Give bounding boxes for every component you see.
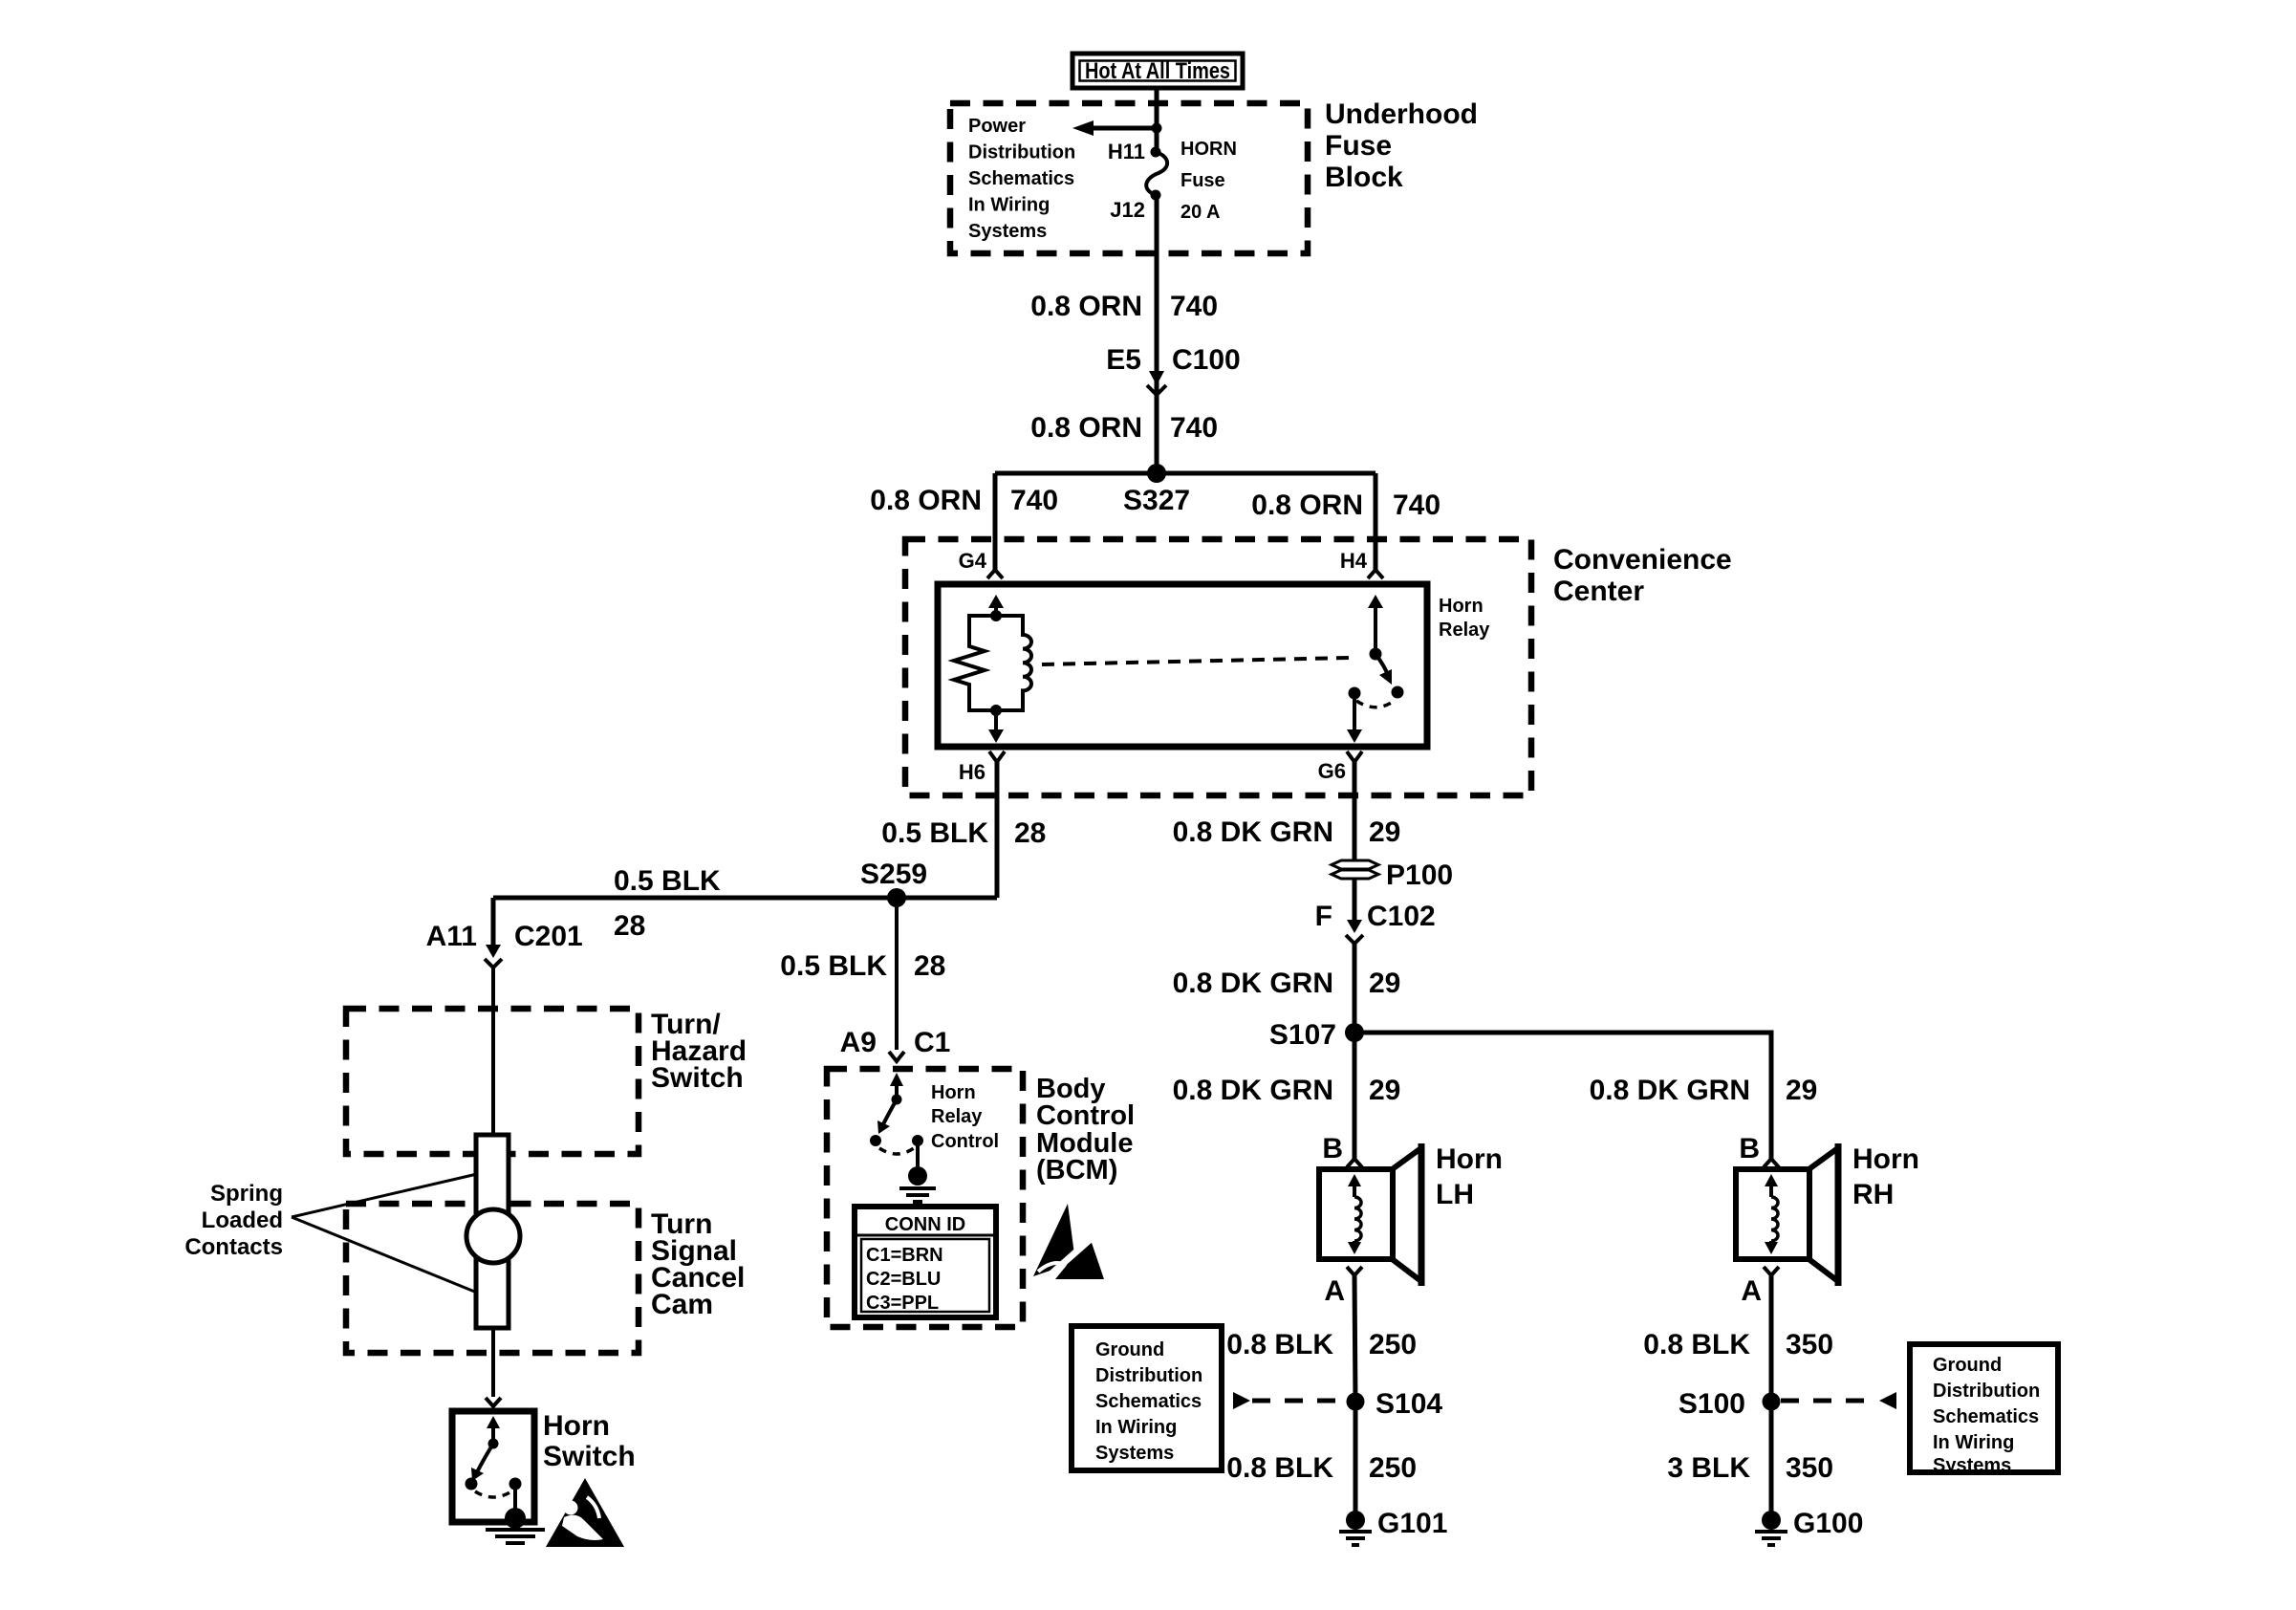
connector C1 pin A9 [840, 1027, 951, 1061]
svg-text:Ground: Ground [1933, 1355, 2002, 1376]
svg-text:Relay: Relay [931, 1106, 983, 1127]
svg-text:A9: A9 [840, 1027, 877, 1058]
wire label 0.8 DK GRN 29 (LH) [1173, 1075, 1401, 1106]
arrow to power distribution [1072, 120, 1162, 136]
ground G101 [1339, 1508, 1447, 1545]
svg-text:(BCM): (BCM) [1036, 1155, 1117, 1186]
Underhood Fuse Block label [1325, 98, 1478, 193]
wire S107 down to horn LH [1353, 1033, 1357, 1159]
node S100 [1763, 1393, 1781, 1411]
svg-text:350: 350 [1786, 1452, 1833, 1484]
svg-text:Power: Power [968, 116, 1026, 137]
svg-text:C201: C201 [514, 921, 583, 952]
airbag warning triangle [546, 1478, 624, 1547]
pin A (LH) [1324, 1267, 1362, 1307]
horn switch ground [486, 1484, 545, 1543]
pin B (LH) [1322, 1133, 1362, 1167]
wire C102 to S107 [1353, 944, 1357, 1033]
svg-text:In Wiring: In Wiring [1933, 1432, 2014, 1453]
svg-text:0.5 BLK: 0.5 BLK [614, 865, 721, 897]
wire S100 to G100 [1769, 1402, 1774, 1513]
svg-text:29: 29 [1786, 1075, 1817, 1106]
wire P100 to C102 [1353, 879, 1357, 920]
BCM internal ground [899, 1141, 936, 1202]
ESD warning symbol [1033, 1204, 1104, 1282]
Turn/Hazard Switch dashed box [346, 1009, 639, 1154]
svg-text:0.8 DK GRN: 0.8 DK GRN [1173, 1075, 1333, 1106]
svg-text:Distribution: Distribution [968, 142, 1075, 163]
Turn Signal Cancel Cam label [651, 1208, 745, 1320]
svg-text:C1: C1 [914, 1027, 950, 1058]
Convenience Center label [1553, 544, 1732, 607]
wire label 0.5 BLK 28 [780, 950, 945, 982]
svg-text:0.8 DK GRN: 0.8 DK GRN [1173, 968, 1333, 999]
svg-text:3 BLK: 3 BLK [1667, 1452, 1750, 1484]
svg-text:Systems: Systems [1095, 1443, 1174, 1464]
svg-text:0.8 BLK: 0.8 BLK [1226, 1452, 1333, 1484]
svg-text:Distribution: Distribution [1933, 1381, 2040, 1402]
relay coil bottom node and arrow to H6 [988, 705, 1004, 743]
wire label 0.8 BLK 250 [1226, 1452, 1417, 1484]
svg-text:Switch: Switch [543, 1441, 636, 1472]
svg-text:Control: Control [1036, 1100, 1135, 1131]
splice S327 bus wire [995, 471, 1375, 476]
horn switch input terminal [486, 1398, 501, 1406]
svg-text:Fuse: Fuse [1325, 130, 1392, 162]
dashed reference link to ground distribution [1233, 1392, 1346, 1409]
svg-text:29: 29 [1369, 1075, 1400, 1106]
svg-text:Spring: Spring [210, 1181, 283, 1207]
relay coil resistor (left leg) [954, 616, 996, 710]
pin G4 [959, 549, 1003, 578]
wire from C201 to cancel cam [491, 968, 495, 1135]
svg-text:Horn: Horn [931, 1082, 976, 1103]
Ground Distribution box (right) [1910, 1344, 2058, 1476]
wire label 0.8 BLK 250 [1226, 1329, 1417, 1360]
svg-text:S327: S327 [1123, 485, 1190, 516]
svg-text:740: 740 [1170, 291, 1218, 322]
wire horn RH to S100 [1769, 1275, 1774, 1402]
svg-text:C1=BRN: C1=BRN [866, 1245, 943, 1266]
svg-text:B: B [1739, 1133, 1760, 1164]
horn switch arm [471, 1416, 500, 1481]
svg-text:Underhood: Underhood [1325, 98, 1478, 130]
svg-text:C102: C102 [1367, 901, 1436, 932]
Body Control Module label [1036, 1074, 1135, 1186]
svg-text:H11: H11 [1108, 140, 1145, 163]
svg-text:S259: S259 [860, 859, 927, 890]
svg-text:28: 28 [914, 950, 945, 982]
svg-text:0.5 BLK: 0.5 BLK [881, 817, 988, 849]
dashed reference link to ground distribution (right) [1781, 1392, 1896, 1409]
svg-text:Ground: Ground [1095, 1339, 1164, 1360]
wire S104 to G101 [1354, 1402, 1358, 1513]
pin A (RH) [1741, 1267, 1779, 1307]
svg-text:Control: Control [931, 1131, 999, 1152]
wire label 0.8 ORN 740 [1030, 412, 1218, 444]
node S259 [887, 888, 906, 907]
wire down from corner to connector C201 [491, 898, 496, 945]
svg-text:C2=BLU: C2=BLU [866, 1269, 941, 1290]
relay switch output arrow to G6 [1347, 693, 1362, 743]
wire S327 to G4 [993, 473, 998, 570]
horn switch contacts [466, 1478, 522, 1498]
relay switch arm pivot (from H4) [1368, 595, 1392, 685]
wire label 0.8 BLK 350 [1643, 1329, 1833, 1360]
pin H4 [1340, 549, 1383, 578]
horizontal wire to turn/hazard switch [493, 896, 997, 901]
svg-text:29: 29 [1369, 816, 1400, 848]
Horn Relay Control label [931, 1082, 999, 1152]
connector C102 pin F [1315, 901, 1436, 944]
svg-text:E5: E5 [1106, 344, 1141, 376]
svg-text:A11: A11 [426, 921, 477, 952]
svg-text:Hot At All Times: Hot At All Times [1085, 58, 1230, 84]
svg-text:Schematics: Schematics [968, 168, 1074, 189]
svg-text:C100: C100 [1172, 344, 1241, 376]
svg-text:350: 350 [1786, 1329, 1833, 1360]
wire S107 branch to horn RH [1354, 1033, 1771, 1159]
svg-text:Contacts: Contacts [184, 1234, 283, 1260]
grommet P100 [1332, 859, 1453, 891]
svg-text:Convenience: Convenience [1553, 544, 1732, 576]
wire S259 down to BCM [895, 898, 899, 1050]
svg-text:G100: G100 [1793, 1508, 1863, 1539]
svg-text:S107: S107 [1269, 1019, 1336, 1051]
svg-text:Horn: Horn [1436, 1143, 1503, 1175]
svg-text:0.8 ORN: 0.8 ORN [870, 485, 982, 516]
wire label 0.8 DK GRN 29 [1173, 968, 1401, 999]
fuse HORN Fuse 20 A [1146, 152, 1167, 195]
horn relay control contacts [870, 1135, 923, 1154]
Hot At All Times box [1072, 54, 1243, 88]
svg-text:S100: S100 [1679, 1388, 1745, 1420]
Horn LH label [1436, 1143, 1503, 1210]
svg-text:Cam: Cam [651, 1289, 713, 1320]
wire label 3 BLK 350 [1667, 1452, 1833, 1484]
svg-text:28: 28 [614, 910, 645, 942]
svg-text:A: A [1324, 1275, 1345, 1307]
svg-text:C3=PPL: C3=PPL [866, 1293, 939, 1314]
svg-text:Center: Center [1553, 576, 1644, 607]
svg-text:Horn: Horn [543, 1410, 610, 1442]
relay actuation dashed link [1042, 658, 1350, 664]
wire horn LH to S104 [1354, 1275, 1355, 1402]
Convenience Center dashed box [905, 539, 1531, 795]
pin B (RH) [1739, 1133, 1779, 1167]
CONN ID table [855, 1207, 996, 1317]
svg-text:28: 28 [1014, 817, 1046, 849]
svg-text:J12: J12 [1110, 198, 1145, 222]
svg-text:0.8 ORN: 0.8 ORN [1030, 412, 1142, 444]
wire label 0.8 ORN 740 (right) [1251, 490, 1440, 521]
svg-text:0.8 BLK: 0.8 BLK [1643, 1329, 1750, 1360]
horn relay control driver arrow [877, 1073, 903, 1134]
svg-text:20 A: 20 A [1180, 202, 1221, 223]
svg-text:F: F [1315, 901, 1332, 932]
Horn Relay label [1439, 596, 1490, 641]
Spring Loaded Contacts label [184, 1181, 283, 1260]
wire from cancel cam to horn switch [491, 1328, 495, 1397]
svg-text:0.8 ORN: 0.8 ORN [1251, 490, 1363, 521]
wire from Hot At All Times into fuse block [1155, 88, 1159, 152]
Horn Switch label [543, 1410, 636, 1472]
svg-text:G4: G4 [959, 549, 987, 573]
svg-text:Horn: Horn [1852, 1143, 1919, 1175]
Power Distribution Schematics In Wiring Systems note [968, 116, 1075, 242]
svg-text:Block: Block [1325, 162, 1403, 193]
wire label 0.8 ORN 740 (left) [870, 485, 1058, 516]
Turn Signal Cancel Cam dashed box [346, 1204, 639, 1353]
svg-text:740: 740 [1393, 490, 1440, 521]
svg-text:Fuse: Fuse [1180, 170, 1225, 191]
svg-text:CONN ID: CONN ID [885, 1214, 965, 1235]
Horn RH label [1852, 1143, 1919, 1210]
svg-text:0.8 DK GRN: 0.8 DK GRN [1590, 1075, 1750, 1106]
wire label 0.5 BLK / 28 (horizontal run) [614, 865, 721, 942]
svg-text:P100: P100 [1386, 859, 1453, 891]
svg-text:B: B [1322, 1133, 1343, 1164]
node S107 [1345, 1023, 1364, 1042]
wire S327 to H4 [1374, 473, 1378, 570]
svg-text:0.8 ORN: 0.8 ORN [1030, 291, 1142, 322]
Horn Switch box [452, 1411, 534, 1522]
svg-text:H4: H4 [1340, 549, 1368, 573]
svg-text:740: 740 [1010, 485, 1058, 516]
svg-text:Distribution: Distribution [1095, 1365, 1202, 1386]
relay coil inductor (right leg) [996, 616, 1031, 710]
Turn/Hazard Switch label [651, 1009, 747, 1094]
Horn LH [1319, 1143, 1422, 1286]
connector C100 pin E5 [1106, 344, 1240, 395]
Horn RH [1736, 1143, 1839, 1286]
svg-text:H6: H6 [959, 760, 986, 784]
svg-text:0.5 BLK: 0.5 BLK [780, 950, 887, 982]
pin G6 [1318, 751, 1362, 860]
node S327 [1147, 464, 1166, 483]
svg-text:LH: LH [1436, 1179, 1474, 1210]
svg-text:In Wiring: In Wiring [968, 195, 1050, 216]
svg-text:Schematics: Schematics [1095, 1391, 1202, 1412]
spring loaded contacts pointer lines [292, 1174, 477, 1217]
svg-text:G6: G6 [1318, 759, 1346, 783]
svg-text:250: 250 [1369, 1452, 1417, 1484]
svg-text:740: 740 [1170, 412, 1218, 444]
svg-text:HORN: HORN [1180, 139, 1237, 160]
svg-text:Relay: Relay [1439, 620, 1490, 641]
cancel cam circle [466, 1209, 520, 1263]
svg-text:In Wiring: In Wiring [1095, 1417, 1177, 1438]
Horn Relay box [938, 584, 1427, 747]
svg-text:S104: S104 [1375, 1388, 1442, 1420]
wire label 0.8 DK GRN 29 (RH) [1590, 1075, 1818, 1106]
svg-text:Switch: Switch [651, 1062, 744, 1094]
svg-text:Horn: Horn [1439, 596, 1484, 617]
svg-text:Systems: Systems [968, 221, 1047, 242]
svg-text:A: A [1741, 1275, 1762, 1307]
svg-text:RH: RH [1852, 1179, 1894, 1210]
svg-text:29: 29 [1369, 968, 1400, 999]
relay coil pin arrow (from G4) [988, 595, 1004, 621]
connector C201 pin A11 [426, 921, 583, 968]
svg-text:Systems: Systems [1933, 1455, 2011, 1476]
svg-text:G101: G101 [1377, 1508, 1447, 1539]
svg-text:Schematics: Schematics [1933, 1406, 2039, 1427]
Underhood Fuse Block dashed box [950, 103, 1308, 253]
Ground Distribution box (left) [1072, 1326, 1222, 1470]
Body Control Module dashed box [827, 1069, 1023, 1327]
relay switch contacts [1349, 686, 1404, 707]
node H11 [1151, 147, 1161, 158]
wire label 0.8 ORN 740 [1030, 291, 1218, 322]
node J12 [1151, 190, 1161, 201]
wire from fuse down to S327 [1155, 195, 1159, 473]
cancel cam slider bar [476, 1135, 509, 1328]
svg-text:Loaded: Loaded [202, 1207, 283, 1233]
svg-text:0.8 DK GRN: 0.8 DK GRN [1173, 816, 1333, 848]
pin H6 [959, 751, 1005, 898]
wire label 0.5 BLK 28 (below H6) [881, 817, 1046, 849]
wire label 0.8 DK GRN 29 (above P100) [1173, 816, 1401, 848]
ground G100 [1755, 1508, 1863, 1545]
node S104 [1347, 1393, 1365, 1411]
svg-text:250: 250 [1369, 1329, 1417, 1360]
svg-text:0.8 BLK: 0.8 BLK [1226, 1329, 1333, 1360]
